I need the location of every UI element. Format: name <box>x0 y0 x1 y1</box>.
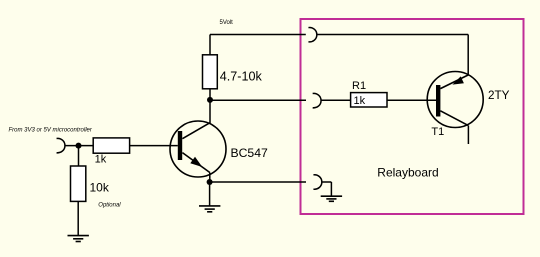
svg-text:10k: 10k <box>90 180 110 194</box>
svg-text:5Volt: 5Volt <box>220 20 234 26</box>
ground symbol (relayboard) <box>321 196 342 201</box>
svg-text:BC547: BC547 <box>231 146 268 160</box>
resistor 1k (base series) <box>93 138 129 153</box>
connector pin JP1-2 <box>313 93 351 107</box>
transistor Q1 BC547 (NPN) <box>170 121 226 177</box>
wire emitter to ground <box>209 182 211 206</box>
wire 1k to BC547 base <box>130 145 178 147</box>
wire to 10k pulldown <box>78 146 80 166</box>
resistor R 4.7-10k <box>203 55 218 89</box>
wire JP1-3 to relayboard ground <box>330 182 332 196</box>
node junction dot at input <box>76 143 82 149</box>
svg-text:Optional: Optional <box>98 202 121 208</box>
wire T1 emitter feed vertical <box>467 35 469 75</box>
svg-text:1k: 1k <box>95 154 107 166</box>
transistor T1 (PNP) <box>427 72 483 128</box>
resistor R1 <box>351 93 387 107</box>
wire 5V vertical from resistor top <box>209 35 211 55</box>
connector pin input (from microcontroller) <box>57 138 94 152</box>
wire BC547 emitter down to junction <box>209 173 211 183</box>
ground symbol (BC547 emitter) <box>199 206 220 212</box>
svg-text:From 3V3 or 5V microcontroller: From 3V3 or 5V microcontroller <box>9 128 93 134</box>
relayboard outline box <box>301 19 524 214</box>
wire R1 to T1 base <box>387 99 436 101</box>
ground symbol (below 10k) <box>68 236 89 242</box>
resistor 10k <box>71 166 86 201</box>
connector pin JP1-3 <box>313 175 331 189</box>
connector pin JP1-1 <box>308 28 468 42</box>
wire collector net to connector JP1-2 <box>210 99 306 101</box>
node junction dot on collector net <box>207 97 213 103</box>
wire 10k to ground <box>77 201 79 235</box>
svg-text:2TY: 2TY <box>488 89 510 102</box>
svg-text:1k: 1k <box>354 95 366 107</box>
svg-text:R1: R1 <box>352 80 366 92</box>
wire T1 collector stub down <box>467 126 469 144</box>
wire collector net vertical (resistor bottom to BC547 collector) <box>209 89 211 124</box>
wire emitter net to connector JP1-3 <box>210 181 306 183</box>
svg-text:Relayboard: Relayboard <box>377 165 438 179</box>
svg-text:T1: T1 <box>431 126 444 138</box>
svg-text:4.7-10k: 4.7-10k <box>220 70 263 84</box>
wire 5V horizontal to connector JP1-1 <box>210 34 306 36</box>
node junction dot at emitter <box>207 179 213 185</box>
